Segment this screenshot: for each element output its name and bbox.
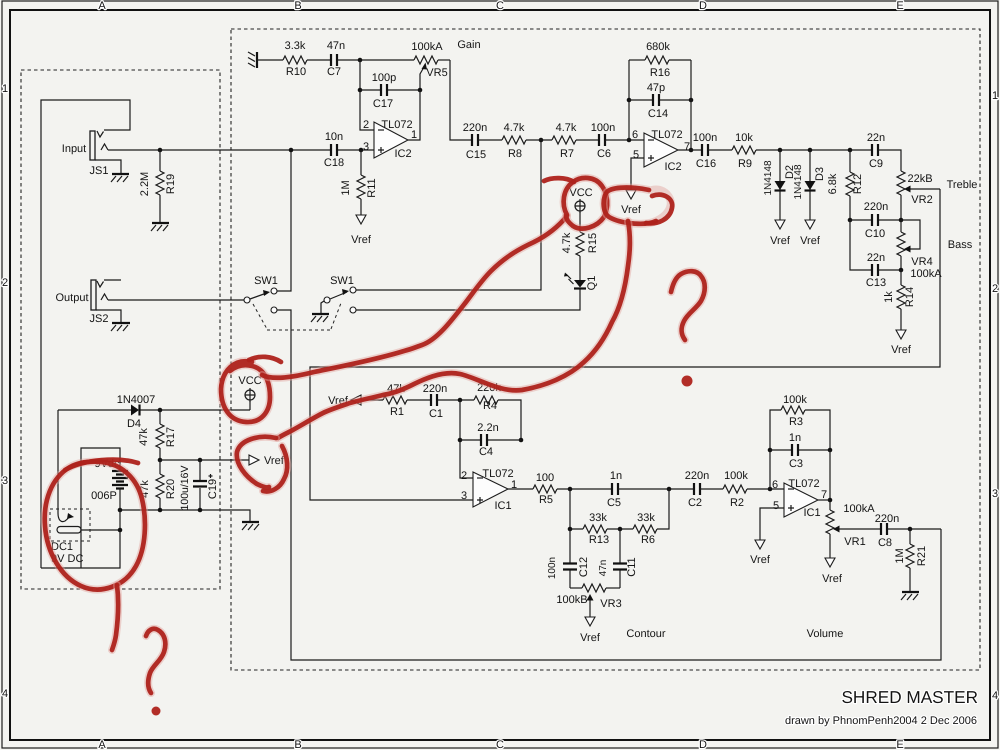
resistor R7	[552, 136, 576, 144]
DC jack hook	[58, 513, 74, 522]
wire R2 to pin6	[747, 488, 784, 490]
wire C6 to pin6	[605, 139, 644, 141]
svg-text:D: D	[699, 0, 707, 12]
svg-text:R10: R10	[286, 66, 306, 78]
wire JS2 to SW1a	[108, 299, 244, 301]
svg-text:VR3: VR3	[600, 598, 621, 610]
node IC1b out	[828, 498, 833, 503]
VCC symbol mid	[575, 199, 585, 213]
wire C9 to VR2	[878, 150, 901, 171]
red tail below ellipse	[112, 585, 118, 650]
svg-text:33k: 33k	[637, 512, 655, 524]
svg-text:R20: R20	[165, 479, 177, 499]
grid letters bottom	[98, 739, 903, 750]
svg-text:VR2: VR2	[911, 194, 932, 206]
svg-text:2.2M: 2.2M	[139, 172, 151, 196]
grid letters top	[98, 0, 903, 12]
node IC2b out	[689, 148, 694, 153]
node mid contour	[618, 527, 623, 532]
wire C2 to R2	[700, 488, 723, 490]
node C7 out	[358, 58, 363, 63]
svg-text:R11: R11	[366, 178, 378, 197]
svg-text:SW1: SW1	[330, 275, 354, 287]
svg-text:100n: 100n	[547, 557, 558, 579]
svg-text:Output: Output	[55, 292, 88, 304]
svg-text:R1: R1	[390, 406, 404, 418]
capacitor C3	[770, 444, 830, 456]
red ring Vref left arcB	[263, 446, 287, 491]
wire R6 right up	[657, 489, 669, 529]
capacitor C7	[331, 54, 337, 66]
svg-text:1: 1	[2, 83, 8, 95]
dashed box main circuit	[231, 29, 980, 670]
svg-text:C14: C14	[648, 108, 668, 120]
gang link dashes	[253, 303, 341, 330]
svg-text:D: D	[699, 739, 707, 750]
grid numbers left	[2, 83, 8, 700]
svg-text:R8: R8	[508, 148, 522, 160]
svg-text:4.7k: 4.7k	[504, 122, 525, 134]
pot VR2 treble	[897, 171, 940, 220]
battery cell 9V	[112, 471, 128, 530]
svg-text:R17: R17	[165, 427, 177, 447]
svg-text:47n: 47n	[598, 560, 609, 577]
svg-text:TL072: TL072	[482, 468, 513, 480]
wire C8 to R21	[887, 528, 941, 530]
resistor R10	[283, 56, 307, 64]
pot VR1 volume	[826, 510, 881, 558]
red ellipse battery	[45, 462, 145, 590]
svg-text:C12: C12	[578, 557, 590, 577]
svg-text:3: 3	[461, 490, 467, 502]
svg-text:2: 2	[461, 470, 467, 482]
svg-text:1M: 1M	[894, 548, 906, 563]
svg-text:47p: 47p	[647, 82, 665, 94]
ground SW1b	[311, 314, 329, 322]
op-amp IC2b	[644, 133, 678, 167]
red question mark bottom underlay	[146, 629, 165, 693]
svg-text:C11: C11	[626, 557, 638, 576]
wire feedback left IC1b	[770, 410, 781, 489]
svg-text:100k: 100k	[724, 470, 748, 482]
svg-text:47k: 47k	[138, 428, 150, 446]
svg-text:TL072: TL072	[651, 129, 682, 141]
node C14 right	[689, 98, 694, 103]
wire C7 to VR5	[337, 59, 414, 61]
wire JS1 tip loop	[41, 100, 130, 568]
svg-text:Vref: Vref	[621, 204, 642, 216]
svg-text:C4: C4	[479, 446, 493, 458]
red overshoot VCC left ring	[249, 357, 281, 362]
svg-text:6: 6	[772, 479, 778, 491]
node tap after C15	[539, 138, 544, 143]
wire feedback right IC2b	[690, 60, 692, 150]
svg-text:R5: R5	[539, 494, 553, 506]
red tail VCC mid top	[544, 178, 574, 182]
svg-text:10n: 10n	[325, 131, 343, 143]
svg-text:5: 5	[633, 149, 639, 161]
svg-text:SW1: SW1	[254, 275, 278, 287]
node bus R20	[158, 508, 163, 513]
svg-text:A: A	[98, 739, 106, 750]
svg-text:100kA: 100kA	[843, 503, 875, 515]
svg-text:Vref: Vref	[750, 554, 771, 566]
capacitor C19 electrolytic	[193, 460, 213, 510]
svg-text:100n: 100n	[693, 132, 717, 144]
node C17 left	[358, 88, 363, 93]
svg-text:C19: C19	[207, 479, 219, 499]
wire JS2 sleeve	[96, 310, 121, 322]
svg-text:2: 2	[363, 119, 369, 131]
wire pill to battery	[81, 529, 120, 531]
diode D4	[131, 405, 140, 416]
wire R13 to R6	[607, 528, 633, 530]
wire C15 to R8	[478, 139, 502, 141]
svg-text:R9: R9	[738, 158, 752, 170]
node C4 left	[458, 438, 463, 443]
node R21	[908, 527, 913, 532]
svg-text:1: 1	[411, 129, 417, 141]
svg-text:A: A	[98, 0, 106, 12]
svg-text:100kA: 100kA	[411, 41, 443, 53]
svg-text:680k: 680k	[646, 41, 670, 53]
red overshoot battery ellipse	[65, 460, 138, 470]
capacitor C13	[872, 264, 878, 276]
svg-text:1M: 1M	[340, 180, 352, 195]
red dot bottom	[152, 707, 161, 716]
node pin6 IC1b	[768, 487, 773, 492]
capacitor C16	[702, 144, 708, 156]
wire IC1b out	[818, 499, 830, 501]
svg-text:Vref: Vref	[264, 455, 285, 467]
svg-text:3: 3	[2, 475, 8, 487]
svg-text:1N4148: 1N4148	[763, 160, 774, 195]
svg-text:4.7k: 4.7k	[556, 122, 577, 134]
ground JS1	[111, 174, 129, 182]
LED Q1	[564, 273, 586, 289]
svg-text:Volume: Volume	[807, 628, 844, 640]
node D2	[778, 148, 783, 153]
wire R3 right	[805, 410, 830, 450]
svg-text:C15: C15	[466, 149, 486, 161]
Vref triangle D3	[805, 220, 815, 229]
Vref triangle D2	[775, 220, 785, 229]
resistor R1	[383, 396, 407, 404]
node D3	[808, 148, 813, 153]
red blob VCC mid	[564, 178, 608, 229]
ground bus	[242, 522, 259, 530]
node R13 left	[568, 527, 573, 532]
op-amp IC1a	[473, 472, 508, 507]
node R4 left	[458, 398, 463, 403]
node C14 left	[627, 98, 632, 103]
capacitor C2	[694, 483, 700, 495]
red blob Vref mid underlay	[604, 188, 671, 224]
svg-text:C17: C17	[373, 98, 393, 110]
svg-text:C7: C7	[327, 66, 341, 78]
svg-text:22n: 22n	[867, 132, 885, 144]
svg-text:Gain: Gain	[457, 39, 480, 51]
Vref triangle R11	[356, 215, 366, 224]
Vref triangle R14	[896, 330, 906, 339]
svg-text:1N4007: 1N4007	[117, 394, 156, 406]
red blob VCC mid underlay	[564, 178, 608, 229]
wire DC jack drop	[57, 410, 59, 513]
svg-text:R15: R15	[587, 233, 599, 253]
svg-text:220n: 220n	[463, 122, 487, 134]
Vref source triangle	[249, 455, 259, 465]
svg-text:drawn by PhnomPenh2004 2 Dec: drawn by PhnomPenh2004 2 Dec 2006	[785, 715, 977, 727]
node C10 right	[899, 218, 904, 223]
wire SW1b top throw to signal tap	[356, 140, 541, 290]
capacitor C1	[431, 394, 437, 406]
svg-text:C9: C9	[869, 158, 883, 170]
svg-text:1: 1	[992, 90, 998, 102]
svg-text:Input: Input	[62, 143, 86, 155]
wire pin5 IC1b Vref	[760, 508, 784, 540]
resistor R9	[732, 146, 756, 154]
wire Vref rail	[160, 459, 249, 461]
red S-curve Vref link	[278, 221, 630, 438]
red ring Vref left arcA	[237, 437, 276, 488]
red long stroke VCC link underlay	[262, 216, 567, 378]
node D4-R17	[158, 408, 163, 413]
red blob Vref mid	[604, 188, 656, 224]
svg-text:100n: 100n	[591, 122, 615, 134]
wire out to C16	[678, 149, 702, 151]
wire pin5 Vref	[631, 158, 644, 190]
svg-text:C16: C16	[696, 158, 716, 170]
capacitor C11	[613, 529, 627, 588]
Vref triangle IC1b	[755, 540, 765, 549]
ground R19	[151, 223, 169, 231]
svg-text:47n: 47n	[327, 40, 345, 52]
svg-text:4: 4	[992, 690, 998, 702]
wire feedback right IC1b	[829, 450, 831, 510]
capacitor C8	[881, 523, 887, 535]
red long stroke VCC link	[262, 216, 567, 378]
svg-text:2: 2	[992, 283, 998, 295]
svg-text:100p: 100p	[372, 72, 396, 84]
resistor R17	[156, 410, 164, 460]
svg-text:JS2: JS2	[90, 313, 109, 325]
svg-text:1n: 1n	[610, 470, 622, 482]
node C4 right	[519, 438, 524, 443]
capacitor C15	[472, 134, 478, 146]
svg-text:R16: R16	[650, 67, 670, 79]
wire bass wiper loop	[901, 220, 920, 249]
ground R10 rotated	[248, 52, 257, 68]
svg-text:C: C	[496, 739, 504, 750]
red question mark mid underlay	[671, 271, 705, 340]
resistor R13	[583, 525, 607, 533]
svg-text:R12: R12	[852, 174, 864, 194]
wire IC2a out	[408, 90, 420, 140]
svg-text:Vref: Vref	[800, 235, 821, 247]
node C10 left	[848, 218, 853, 223]
capacitor C10	[850, 214, 901, 226]
svg-text:22kB: 22kB	[907, 173, 932, 185]
svg-text:100kA: 100kA	[910, 268, 942, 280]
capacitor C5	[612, 483, 618, 495]
switch SW1a	[244, 288, 277, 313]
wire input signal	[108, 149, 374, 151]
DC jack pin pill	[57, 527, 81, 534]
node bus battery	[118, 508, 123, 513]
svg-text:SHRED MASTER: SHRED MASTER	[841, 687, 978, 707]
wire R13 left drop	[570, 489, 583, 529]
wire treble out long	[310, 189, 940, 500]
switch SW1b	[324, 287, 356, 313]
op-amp IC2a	[374, 122, 408, 158]
wire D4 rail	[58, 409, 250, 411]
node pin3 junction	[359, 148, 364, 153]
svg-text:1N4148: 1N4148	[793, 164, 804, 199]
node C19 top	[198, 458, 203, 463]
svg-text:4.7k: 4.7k	[561, 232, 573, 253]
node C5 left	[568, 487, 573, 492]
svg-text:220n: 220n	[875, 513, 899, 525]
svg-text:C6: C6	[597, 148, 611, 160]
svg-text:Vref: Vref	[891, 344, 912, 356]
capacitor C9	[872, 144, 878, 156]
capacitor C14	[629, 94, 691, 106]
svg-text:IC2: IC2	[664, 161, 681, 173]
svg-text:100: 100	[536, 472, 554, 484]
svg-text:3.3k: 3.3k	[285, 40, 306, 52]
svg-text:R4: R4	[483, 400, 497, 412]
wire SW1a bottom throw	[277, 310, 941, 660]
svg-text:Bass: Bass	[948, 239, 973, 251]
capacitor C18	[331, 144, 337, 156]
wire gnd to R10	[257, 59, 283, 61]
svg-text:R19: R19	[165, 174, 177, 194]
svg-text:D3: D3	[814, 167, 826, 181]
wire ground bus	[120, 510, 250, 521]
red dot mid	[682, 376, 693, 387]
resistor R21	[906, 529, 914, 591]
diode D3	[805, 150, 816, 220]
wire R8 to R7	[526, 139, 552, 141]
node Vref divider	[158, 458, 163, 463]
svg-text:C5: C5	[607, 497, 621, 509]
resistor R4	[474, 396, 498, 404]
svg-text:B: B	[294, 0, 301, 12]
svg-text:TL072: TL072	[788, 478, 819, 490]
resistor R16	[629, 56, 691, 64]
svg-text:VCC: VCC	[238, 375, 261, 387]
red ring Vref left underlay	[237, 437, 287, 492]
grid numbers right	[992, 90, 998, 702]
svg-text:220n: 220n	[685, 470, 709, 482]
svg-text:100kB: 100kB	[556, 594, 587, 606]
node R12 top	[848, 148, 853, 153]
svg-text:VCC: VCC	[569, 187, 592, 199]
node bus C19	[198, 508, 203, 513]
svg-text:4: 4	[2, 688, 8, 700]
svg-text:Vref: Vref	[351, 234, 372, 246]
svg-text:Vref: Vref	[580, 632, 601, 644]
svg-text:C1: C1	[429, 408, 443, 420]
svg-text:1n: 1n	[789, 432, 801, 444]
resistor R2	[723, 485, 747, 493]
wire feedback left IC2b	[628, 60, 630, 140]
svg-text:C2: C2	[688, 497, 702, 509]
red tail below ellipse underlay	[112, 585, 118, 650]
svg-text:2.2n: 2.2n	[477, 422, 498, 434]
wire C1 to node	[437, 399, 474, 401]
wire C16 to R9	[708, 149, 732, 151]
pot VR3	[570, 584, 620, 617]
wire JS1 sleeve	[95, 160, 121, 173]
svg-text:C18: C18	[324, 157, 344, 169]
svg-text:C3: C3	[789, 458, 803, 470]
wire R1 to C1	[407, 399, 431, 401]
svg-text:IC1: IC1	[494, 500, 511, 512]
wire R9 to tone	[756, 149, 872, 151]
wire R5 to C5	[557, 488, 612, 490]
svg-text:R3: R3	[789, 416, 803, 428]
pot VR5	[414, 56, 450, 90]
resistor R20	[156, 460, 164, 510]
wire C4 left	[460, 400, 473, 478]
ground R21	[901, 592, 919, 600]
svg-text:10k: 10k	[735, 132, 753, 144]
svg-text:100k: 100k	[783, 394, 807, 406]
red annotation group	[45, 178, 705, 716]
svg-text:7: 7	[821, 489, 827, 501]
battery box	[41, 448, 120, 568]
red ring VCC left	[221, 361, 270, 422]
node C5 right	[667, 487, 672, 492]
node input tap	[289, 148, 294, 153]
svg-text:6: 6	[632, 129, 638, 141]
resistor R8	[502, 136, 526, 144]
svg-text:3: 3	[992, 488, 998, 500]
node pill battery	[118, 528, 123, 533]
wire SW1a top throw	[277, 150, 291, 291]
resistor R15	[576, 212, 584, 256]
svg-text:1k: 1k	[883, 291, 895, 303]
red curl Vref mid	[646, 195, 672, 224]
svg-text:Contour: Contour	[626, 628, 665, 640]
svg-text:33k: 33k	[589, 512, 607, 524]
resistor R14	[897, 270, 905, 330]
wire SW1b common to ground	[321, 301, 324, 313]
svg-text:Vref: Vref	[770, 235, 791, 247]
svg-text:C13: C13	[866, 277, 886, 289]
capacitor C4	[460, 434, 521, 446]
svg-text:Treble: Treble	[947, 179, 978, 191]
capacitor C17	[360, 84, 420, 96]
diode D2	[775, 150, 786, 220]
wire R10 to C7	[307, 59, 331, 61]
red ellipse battery underlay	[45, 462, 145, 590]
wire VR5 right drop	[450, 60, 471, 140]
red question mark mid	[671, 271, 705, 340]
wire JS2 tip stub	[104, 279, 121, 281]
wire Vref to R1	[361, 399, 383, 401]
svg-text:C: C	[496, 0, 504, 12]
resistor R6	[633, 525, 657, 533]
capacitor C6	[599, 134, 605, 146]
VCC symbol left	[245, 388, 255, 410]
svg-text:R21: R21	[916, 546, 928, 566]
svg-text:IC1: IC1	[803, 507, 820, 519]
svg-text:Vref: Vref	[822, 573, 843, 585]
resistor R12	[846, 150, 854, 220]
node C3 left	[768, 448, 773, 453]
